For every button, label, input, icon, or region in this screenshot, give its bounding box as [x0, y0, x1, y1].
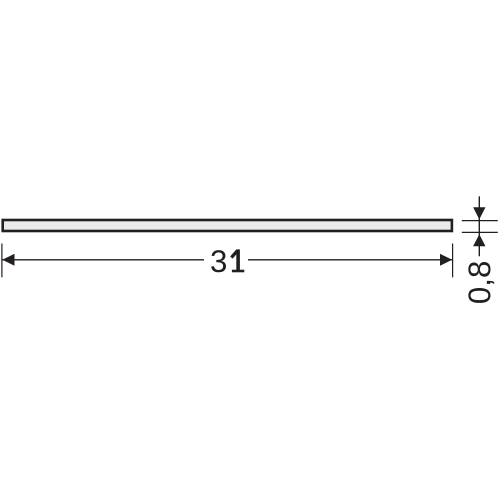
top thickness extension line [462, 220, 498, 222]
right arrowhead [440, 254, 452, 266]
right extension line [452, 244, 454, 278]
thickness dimension vertical line [478, 196, 480, 256]
dimension line 31, left segment [3, 259, 205, 261]
left extension line [1, 244, 3, 278]
left arrowhead [2, 254, 14, 266]
dimension label 31: digit 3 [211, 250, 226, 272]
dimension label 31: digit 1 (foot serif) [232, 270, 244, 273]
digit 8 [468, 262, 490, 277]
dimension label 31: digit 1 (flag) [231, 250, 237, 257]
bottom arrowhead (pointing up) [473, 234, 485, 246]
comma [487, 281, 494, 284]
bottom thickness extension line [462, 231, 498, 233]
dimension label 31: digit 1 (stem) [236, 249, 240, 271]
dimension line 31, right segment [248, 259, 452, 261]
thickness label 0,8 (rotated) [468, 262, 494, 303]
bar profile (31 x 0,8 strip, side view) [3, 220, 452, 231]
top arrowhead (pointing down) [473, 207, 485, 219]
digit 0 [468, 288, 490, 303]
